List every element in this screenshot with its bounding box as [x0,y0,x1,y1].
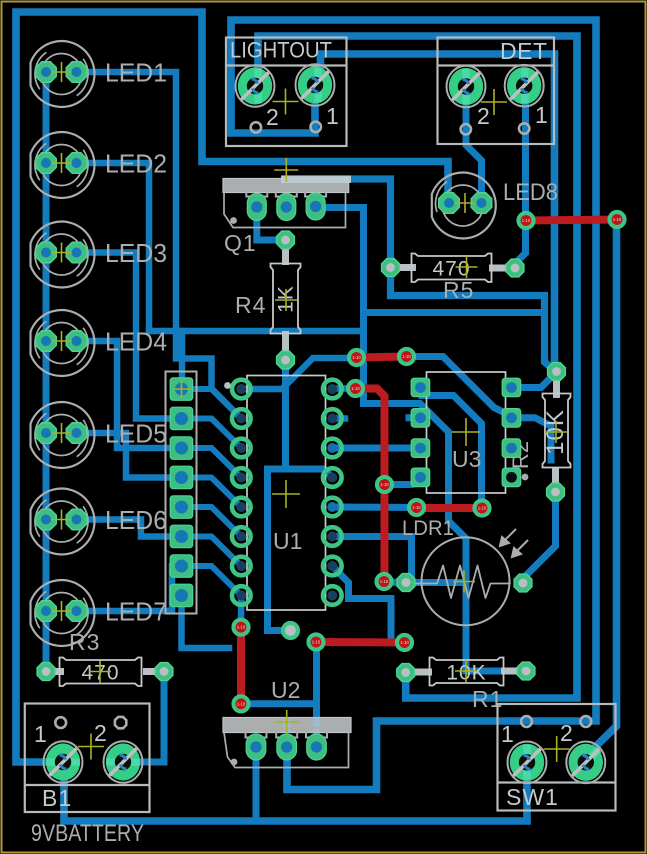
R4 origin cross [275,289,297,311]
svg-text:1-10: 1-10 [380,482,389,487]
LED1 origin cross [52,62,72,82]
svg-text:LIGHTOUT: LIGHTOUT [230,38,332,63]
IC U3 outline [427,372,506,493]
wire - U1 pin6 diagonal to header pad5 [182,507,242,537]
svg-text:1-10: 1-10 [312,640,321,645]
JP1 pad 1 [170,378,193,401]
U2 notch 3 [306,728,327,738]
Q1 pin1 pad [247,194,266,221]
LED3 pad 2 (anode) [66,242,87,263]
svg-text:LED6: LED6 [105,505,167,535]
DET wire hole 1 [519,123,529,133]
svg-text:1-10: 1-10 [351,386,360,391]
SW1 pad 2 [566,742,605,784]
DET title separator [438,64,555,66]
wire - Q1 collector pad3 right, down, to U3 pin, LDR, R1 pad2 [316,208,526,672]
svg-text:2: 2 [560,720,574,746]
U1 pin12 pad [323,498,342,517]
U3 pin5 pad [502,468,521,487]
wire - U1 pin7 diagonal to header pad6 [182,537,242,567]
wire - bottom rail B1 pad1 to SW1 pad1 [64,762,527,821]
LIGHTOUT origin cross [273,89,299,115]
R3 pad 2 [155,663,173,681]
transistor Q1 tab bar [223,179,349,193]
svg-text:9VBATTERY: 9VBATTERY [31,820,144,847]
LED6 origin cross [52,510,72,530]
wire - interior horizontal y469 to U1 pin13 [268,469,333,478]
LIGHTOUT wire hole 2 [251,122,261,132]
wire - R3 pad2 down and left to B1 pad2 [123,672,164,763]
LED8 pad 2 [471,193,492,214]
wire - LED2 cathode to bus [77,163,149,331]
wire - U1 pin1 diagonal to via row [241,358,352,389]
svg-text:2: 2 [477,103,491,129]
resistor R2 body [543,394,571,468]
wire - via link to U2 pad3 riser [241,700,317,707]
LED LED7 silkscreen [31,580,95,646]
resistor R5 lead right [489,265,507,272]
wire - U1 pin4 diagonal to header pad3 [182,448,242,478]
wire - LED5 cathode to header pad4 [77,433,178,478]
Q1 notch 2 [276,187,297,197]
connector LIGHTOUT box [226,38,347,147]
resistor R5 body [412,254,492,283]
LED8 pad 1 [439,193,460,214]
JP1 pad 3 [170,437,193,460]
via net 1-10 h [409,500,424,515]
JP1 pin1 origin cross [173,380,191,398]
svg-text:R1: R1 [472,686,503,712]
U1 pin5 pad [232,498,251,517]
U1 pin6 pad [232,527,251,546]
U2 notch 1 [246,728,267,738]
wire (top layer) - red trace above U2 [316,638,405,647]
DET origin cross [481,89,507,115]
LIGHTOUT pad 2 [236,65,275,107]
svg-text:DET: DET [500,38,548,64]
wire - header pad8 stub down [182,596,230,649]
U3 pin6 pad [502,439,521,458]
wire - U1 pin14 to U3 pin1 [332,445,420,452]
LED LED2 silkscreen [31,132,95,198]
wire (top layer) - red trace between vias above U1 [357,357,407,358]
resistor R3 lead left [55,668,64,675]
svg-text:R5: R5 [443,277,474,303]
svg-text:U1: U1 [273,528,302,554]
LED7 origin cross [52,601,72,621]
wire - drop from bus into header pad1 [179,331,186,382]
DET pad 2 [447,66,486,108]
R1 pad 1 [397,664,415,682]
R5 origin cross [456,256,478,278]
wire - U1 pin2 diagonal to header pad1 [182,389,242,419]
wire - horizontal bus y331 from LED2 riser to x363 vertical [149,328,364,335]
via net 1-10 i [475,501,490,516]
wire - power ring: B1 pad1 left, up left edge, across top, down to LED8 anode rail [16,12,448,762]
op-amp/IC U1 outline [247,376,326,611]
svg-text:U3: U3 [452,446,481,472]
U1 pin15 pad [323,409,342,428]
R3 pad 1 [37,663,55,681]
U3 pin8 pad [502,378,521,397]
via net 1-10 c [349,350,364,365]
R4 pad 2 [277,351,295,369]
resistor R2 lead top [553,381,560,398]
resistor R3 lead right [143,668,156,675]
via (plain) [283,623,298,638]
wire - net: LIGHTOUT pad1 riser, top rail 3, down DET right edge to R2 pad1 [321,54,557,372]
wire - U2 pad1 down to bottom rail [253,747,260,821]
wire - U1 pin8 diagonal to header pad7 [182,566,242,596]
U1 silkscreen dot [224,382,231,389]
wire - U1 pin9 stub to via [238,596,245,625]
wire - LED3 cathode to header pad2 [77,253,178,419]
wire - U1 pin12 to via [332,504,412,512]
wire - LED6 cathode to header pad6 [77,520,178,537]
LED3 pad 1 (cathode) [36,242,57,263]
U3 silkscreen dot [522,474,529,481]
U2 body outline [224,733,349,768]
wire - U1 pin11 to LDR1 pad1 [332,537,411,583]
wire - LED4 cathode to header pad3 [77,341,178,448]
svg-text:1-10: 1-10 [352,355,361,360]
LED LED5 silkscreen [31,402,95,468]
wire - R2 pad2 diagonal to LDR1 pad2 [523,492,556,579]
svg-text:1-10: 1-10 [412,505,421,510]
U2 notch 2 [276,728,297,738]
U3 pin7 pad [502,409,521,428]
SW1 label separator [498,781,616,783]
via net 1-10 j [309,635,324,650]
wire - LED anode chain down left column to R3 pad1 [43,72,50,672]
Q1 notch 3 [305,187,326,197]
wire - LED7 cathode to header pad7 [77,566,178,611]
wire - U1 pin16 stub to via [332,385,350,392]
LED6 pad 2 (anode) [66,509,87,530]
U1 pin3 pad [232,439,251,458]
LED2 pad 2 (anode) [66,153,87,174]
JP1 pad 4 [170,466,193,489]
via net 1-10 k [397,635,412,650]
U1 pin4 pad [232,468,251,487]
via net 1-10 b [610,212,625,227]
JP1 pad 2 [170,407,193,430]
LED7 pad 2 (anode) [66,601,87,622]
header JP1 silkscreen box [166,372,197,614]
wire (top layer) - red trace via to via near LED8 [526,220,617,221]
U2 tab trace highlight 1 [283,718,291,733]
resistor R1 body [430,658,504,686]
LDR1 light arrows [500,529,528,557]
svg-text:SW1: SW1 [506,784,559,810]
resistor R4 body [271,264,301,334]
DET pad 1 [505,65,544,107]
Q1 origin cross [274,158,298,182]
U1 origin cross [272,480,300,508]
U1 pin8 pad [232,586,251,605]
via net 1-10 f [377,477,392,492]
svg-text:Q1: Q1 [224,230,257,256]
svg-text:LDR1: LDR1 [402,517,454,540]
LED7 pad 1 (cathode) [36,601,57,622]
R2 pad 2 [547,483,565,501]
svg-text:R4: R4 [235,292,266,318]
U1 pin1 pad [232,380,251,399]
SW1 hole mark 2 [580,716,591,727]
svg-text:LED3: LED3 [105,238,167,268]
via net 1-10 d [399,349,414,364]
svg-text:1: 1 [326,103,340,129]
svg-text:1-10: 1-10 [400,640,409,645]
via net 1-10 l [234,620,249,635]
wire - net: LIGHTOUT pad2 up, top rail 2, right column, to R1 pad1 [258,36,577,698]
R1 pad 2 [517,662,535,680]
wire - branch from x363 vertical to R2 feed [364,309,545,316]
Q1 silkscreen dot [230,217,237,224]
JP1 pad 6 [170,525,193,548]
U1 pin10 pad [323,557,342,576]
SW1 hole mark 1 [521,716,532,727]
LED LED1 silkscreen [31,41,95,107]
LED LED4 silkscreen [31,310,95,376]
wire - U2 pad3 riser to via [313,643,320,747]
svg-text:1-10: 1-10 [478,506,487,511]
wire - via to SW1 pad2 column [586,220,617,763]
LED4 pad 2 (anode) [66,331,87,352]
Q1 notch 1 [246,187,267,197]
U1 pin16 pad [323,380,342,399]
wire - U3 pin2 stub [409,414,422,421]
LIGHTOUT title separator [226,64,347,66]
U1 pin11 pad [323,527,342,546]
R4 pad 1 [277,231,295,249]
B1 pad 2 [104,741,143,783]
svg-text:2: 2 [94,720,108,746]
wire - U1 pin3 diagonal to header pad2 [182,419,242,449]
wire - Q1 pad1 to R4 pad1 [257,207,286,240]
LDR1 origin cross [453,571,475,593]
LED8 origin cross [455,193,475,213]
U2 tab trace highlight 2 [313,718,321,733]
LED1 pad 2 (anode) [66,62,87,83]
via net 1-10 g [377,574,392,589]
svg-text:1-10: 1-10 [237,701,246,706]
svg-text:R3: R3 [69,629,100,655]
via net 1-10 e [348,381,363,396]
wire - U1 pin10 down and right to via [332,566,404,643]
svg-text:1-10: 1-10 [380,579,389,584]
connector DET box [438,38,555,145]
wire - via to U3 interior diagonal to U3 pin7 [407,357,513,417]
wire (top layer) - red vertical via chain left of U3 [356,389,385,582]
LED5 pad 2 (anode) [66,423,87,444]
wire - U1 pin5 diagonal to header pad4 [182,478,242,508]
regulator U2 tab bar [223,718,351,733]
LIGHTOUT pad 1 [296,64,335,106]
LED5 pad 1 (cathode) [36,423,57,444]
wire (top layer) - red trace below U3 [417,504,483,512]
LED LED8 silkscreen [432,173,496,239]
Q1 pin2 pad [277,194,296,221]
wire - U1 pin15 stub [332,415,345,422]
wire - DET pad1 down to via, continue to R5 pad2 [516,90,526,268]
Q1 tab trace highlight [281,176,351,184]
R1 origin cross [455,660,477,682]
svg-text:2: 2 [266,104,280,130]
LDR1 silkscreen circle [422,537,510,625]
svg-text:1-10: 1-10 [237,625,246,630]
B1 pad 1 [44,741,83,783]
svg-text:LED8: LED8 [503,179,558,206]
wire - via to LDR1 pad1 link [384,579,407,587]
wire - U3 pin1 right to interior vertical down to via [422,396,482,509]
resistor R4 lead bottom [282,331,289,352]
SW1 origin cross [544,736,570,762]
resistor R5 lead left [399,264,416,271]
U3 pin1 pad [411,378,430,397]
LED2 origin cross [52,153,72,173]
LED4 origin cross [52,331,72,351]
Q1 pin3 pad [306,193,325,220]
resistor R2 lead bottom [552,467,559,483]
wire - LED1 cathode long riser to U1 pin2 diagonal [77,72,241,419]
svg-text:1-10: 1-10 [402,354,411,359]
B1 hole mark 2 [115,717,126,728]
LED4 pad 1 (cathode) [36,331,57,352]
DET wire hole 2 [461,124,471,134]
wire - U3 pin6 under R2 to R2 pad2 [512,418,551,460]
resistor R3 body [60,658,142,687]
R5 pad 1 [382,259,400,277]
wire - via to U3 pin4 [385,477,421,484]
wire - DET pad2 down with jog to LED8 pad2 [466,90,482,199]
svg-text:LED2: LED2 [105,149,167,179]
U1 pin7 pad [232,557,251,576]
svg-text:LED5: LED5 [105,419,167,449]
svg-text:LED7: LED7 [105,597,167,627]
U3 origin cross [452,418,480,446]
LDR1 pad 1 [397,574,415,592]
svg-text:B1: B1 [42,785,72,811]
wire - vertical x267 down to via under U1 [268,469,289,631]
LED5 origin cross [52,423,72,443]
resistor R4 lead top [282,248,289,265]
wire - Q1 base stub over tab to R5 pad1 down to R2 pad1 [286,179,556,372]
U1 pin2 pad [232,409,251,428]
via net 1-10 a [519,213,534,228]
JP1 pad 5 [170,496,193,519]
R3 origin cross [89,661,111,683]
wire - U3 pin8 to R2 pad1 [512,373,556,388]
resistor R1 lead right [501,668,518,675]
via net 1-10 m [234,696,249,711]
LED1 pad 1 (cathode) [36,62,57,83]
svg-text:LED1: LED1 [105,58,167,88]
wire - LDR1 pad1 through circle to vertical [406,579,466,586]
svg-text:LED4: LED4 [105,327,167,357]
svg-text:1: 1 [34,721,48,747]
wire (top layer) - red vertical left of U2 [237,627,245,704]
svg-text:1: 1 [535,102,549,128]
LED6 pad 1 (cathode) [36,509,57,530]
Q1 body outline [224,193,346,228]
U1 pin14 pad [323,439,342,458]
LED LED3 silkscreen [31,221,95,287]
R2 pad 1 [548,363,566,381]
U1 pin13 pad [323,468,342,487]
LDR1 zigzag resistor symbol [412,566,510,599]
connector B1 box [25,704,150,813]
svg-text:1: 1 [501,721,515,747]
U3 pin2 pad [411,409,430,428]
U2 silkscreen dot [231,759,238,766]
resistor R1 lead left [414,669,432,676]
connector SW1 box [498,704,616,811]
U3 pin4 pad [411,468,430,487]
U2 pin1 pad [246,734,266,760]
B1 label separator [25,784,150,786]
R2 origin cross [545,421,567,443]
JP1 pad 7 [170,555,193,578]
svg-text:U2: U2 [271,677,300,703]
U2 origin cross [275,710,299,734]
SW1 pad 1 [508,742,547,784]
wire - R4 pad2 vertical down to y469 bus [282,360,289,469]
LED3 origin cross [52,243,72,263]
LDR1 pad 2 [514,574,532,592]
U3 pin3 pad [411,439,430,458]
U2 pin3 pad [307,734,327,760]
LIGHTOUT wire hole 1 [311,122,321,132]
B1 origin cross [78,734,104,760]
svg-text:1-10: 1-10 [522,218,531,223]
B1 hole mark 1 [55,717,66,728]
LED2 pad 1 (cathode) [36,153,57,174]
LED LED6 silkscreen [31,488,95,554]
JP1 pad 8 [170,584,193,607]
R5 pad 2 [506,259,524,277]
U2 pin2 pad [277,734,297,760]
wire - net GND: LIGHTOUT pad1 loop, top rail, right column, to U2 pad2 [231,20,596,790]
U1 pin9 pad [323,586,342,605]
svg-text:1-10: 1-10 [613,217,622,222]
